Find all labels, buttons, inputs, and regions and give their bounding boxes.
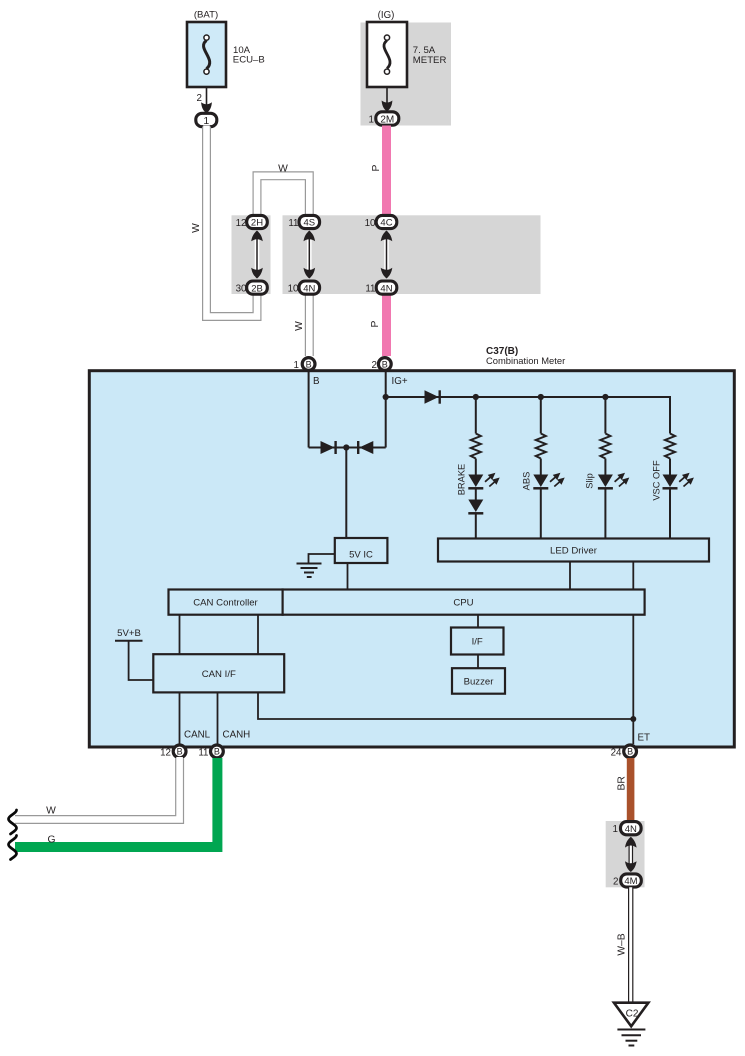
arrow into connector 2M xyxy=(382,101,393,112)
wire R1 to LED xyxy=(475,459,477,475)
value label 10A ECU-B xyxy=(233,45,265,66)
svg-text:11: 11 xyxy=(288,218,298,229)
svg-text:IG+: IG+ xyxy=(392,376,408,387)
diode D1 (from B) xyxy=(321,441,336,454)
connector 1 xyxy=(196,113,217,127)
fuse METER body xyxy=(367,22,407,87)
pin 11 label xyxy=(365,284,375,295)
wire W from junction 2H to junction 4S xyxy=(257,176,309,217)
svg-text:2: 2 xyxy=(613,877,618,888)
svg-text:2M: 2M xyxy=(380,114,394,125)
ground point C2 xyxy=(614,1003,649,1027)
wire W from junction 4N to pin 1 B xyxy=(305,294,314,356)
svg-text:W: W xyxy=(46,806,56,817)
label Slip xyxy=(585,473,595,489)
svg-text:C2: C2 xyxy=(626,1009,639,1020)
node IG+ junction dot xyxy=(383,394,389,400)
svg-text:B: B xyxy=(627,747,633,757)
pin 11 label xyxy=(288,218,298,229)
LED VSC OFF xyxy=(663,470,697,489)
svg-text:4N: 4N xyxy=(380,283,392,294)
node dot branch Slip xyxy=(602,394,608,400)
wire CAN I/F to CANH pin xyxy=(217,693,219,745)
wire ET to pin 24 xyxy=(632,719,634,744)
svg-text:BRAKE: BRAKE xyxy=(457,464,467,496)
wire BR from pin 24 to junction 4N xyxy=(627,758,635,822)
node dot branch ABS xyxy=(538,394,544,400)
svg-text:ECU–B: ECU–B xyxy=(233,55,265,66)
svg-text:1: 1 xyxy=(369,115,374,126)
svg-text:12: 12 xyxy=(160,748,171,759)
junction arrows 4C-4N xyxy=(381,231,393,279)
resistor R3 xyxy=(600,434,610,459)
wire W from connector 1 to junction 2B xyxy=(207,126,258,317)
svg-text:Buzzer: Buzzer xyxy=(464,676,495,687)
svg-text:2B: 2B xyxy=(251,283,263,294)
svg-text:1: 1 xyxy=(613,824,618,835)
wire CPU to I/F xyxy=(477,615,479,628)
wire CAN I/F to ET bus xyxy=(258,693,633,720)
LED ABS xyxy=(533,470,567,489)
wire 5V IC to CPU xyxy=(347,563,349,590)
pin 1 B (top) xyxy=(294,358,315,371)
svg-text:CAN I/F: CAN I/F xyxy=(202,669,236,680)
wire R3 to LED xyxy=(604,459,606,475)
svg-text:B: B xyxy=(177,747,183,757)
wire G from pin 11 to harness xyxy=(15,758,217,847)
connector 4N right xyxy=(376,281,397,294)
svg-text:B: B xyxy=(214,747,220,757)
svg-text:ET: ET xyxy=(638,733,651,744)
harness squiggle (G) xyxy=(9,836,17,860)
wire IG+ bus xyxy=(386,397,670,434)
wire B to diode pair xyxy=(309,447,386,449)
label ABS xyxy=(522,472,532,491)
diode D2 (from IG+) xyxy=(358,441,373,454)
pin 2 label xyxy=(197,93,202,104)
wire label P (upper) xyxy=(371,164,382,171)
svg-text:(BAT): (BAT) xyxy=(194,10,218,21)
connector 4C xyxy=(376,215,397,228)
pin 2 label xyxy=(613,877,618,888)
svg-text:CANL: CANL xyxy=(184,730,211,741)
wire ABS to LED driver xyxy=(540,488,542,538)
svg-text:CPU: CPU xyxy=(453,598,473,609)
wire R4 to LED xyxy=(669,459,671,475)
junction arrows 2H-2B xyxy=(251,231,263,279)
svg-text:24: 24 xyxy=(611,748,622,759)
pin 2 B (top) xyxy=(372,358,392,371)
wire CAN controller to CAN I/F right xyxy=(257,615,259,655)
svg-text:BR: BR xyxy=(617,776,628,790)
CAN I/F block xyxy=(153,654,284,692)
ground bars xyxy=(617,1030,645,1046)
wire P from connector 2M to junction 4C xyxy=(382,126,391,217)
wire IG+ vertical xyxy=(385,371,387,448)
node CANL label xyxy=(184,730,211,741)
wire LED driver to CPU xyxy=(569,562,571,591)
svg-text:P: P xyxy=(371,164,382,171)
wire Slip to LED driver xyxy=(604,488,606,538)
node ET label xyxy=(638,733,651,744)
wire label W (bottom) xyxy=(46,806,56,817)
fuse METER label (IG) xyxy=(378,10,395,21)
pin 1 label xyxy=(369,115,374,126)
connector 4M xyxy=(621,874,642,887)
wire label W-B xyxy=(617,933,628,955)
buzzer block xyxy=(452,668,505,694)
svg-text:B: B xyxy=(382,359,388,369)
wire to 5V IC xyxy=(345,448,347,539)
value label 7.5A METER xyxy=(413,45,447,66)
svg-text:I/F: I/F xyxy=(472,636,483,647)
svg-text:5V+B: 5V+B xyxy=(117,628,141,639)
svg-text:12: 12 xyxy=(236,218,247,229)
connector 4N (bottom) xyxy=(621,822,642,835)
svg-text:CANH: CANH xyxy=(223,730,251,741)
node dot branch BRAKE xyxy=(473,394,479,400)
pin 12 label xyxy=(236,218,247,229)
combination meter box C37(B) xyxy=(89,371,734,747)
connector 2B xyxy=(247,281,268,294)
pin 30 label xyxy=(236,284,247,295)
label C37(B) Combination Meter xyxy=(486,346,565,366)
wire label G (bottom) xyxy=(47,835,55,846)
svg-text:CAN Controller: CAN Controller xyxy=(193,598,258,609)
wire P from junction 4N to pin 2 B xyxy=(382,294,391,356)
wire label W (left vertical) xyxy=(191,223,202,233)
pin 10 label xyxy=(365,218,376,229)
resistor R4 xyxy=(665,434,675,459)
svg-text:B: B xyxy=(306,359,312,369)
connector 4N left xyxy=(299,281,320,294)
svg-text:Slip: Slip xyxy=(585,473,595,489)
I/F block xyxy=(451,628,504,655)
IG gray service box xyxy=(361,23,452,126)
svg-text:METER: METER xyxy=(413,55,447,66)
svg-text:4N: 4N xyxy=(303,283,315,294)
wire I/F to buzzer xyxy=(477,655,479,669)
node ET junction dot xyxy=(630,716,636,722)
wire VSC OFF to LED driver xyxy=(669,488,671,538)
svg-text:5V IC: 5V IC xyxy=(349,550,373,561)
svg-text:4C: 4C xyxy=(380,218,392,229)
ground (5V IC) xyxy=(297,554,335,577)
pin 10 label xyxy=(288,284,299,295)
svg-text:(IG): (IG) xyxy=(378,10,395,21)
svg-text:G: G xyxy=(47,835,55,846)
label VSC OFF xyxy=(652,460,662,501)
fuse ECU-B body xyxy=(187,22,226,87)
CAN Controller block xyxy=(169,590,283,615)
LED Slip xyxy=(598,470,632,489)
arrow into connector 1 xyxy=(201,102,212,113)
svg-text:2: 2 xyxy=(372,360,377,371)
pin 11 B (bottom) xyxy=(198,745,223,759)
wire W-B from 4M to ground xyxy=(628,887,633,1002)
svg-text:10: 10 xyxy=(288,284,299,295)
wire CAN controller to CAN I/F left xyxy=(179,615,181,655)
connector 2M xyxy=(376,112,399,126)
LED BRAKE lower xyxy=(468,500,483,514)
wire label W (top loop) xyxy=(278,163,288,174)
fuse ECU-B label (BAT) xyxy=(194,10,218,21)
wire LED driver to ET node xyxy=(632,562,634,720)
diode D5 (IG+ feed) xyxy=(425,390,440,403)
svg-text:Combination Meter: Combination Meter xyxy=(486,355,565,366)
junction arrows 4S-4N xyxy=(304,231,316,279)
wire CAN I/F to CANL pin xyxy=(179,693,181,745)
junction block bottom gray box xyxy=(606,821,645,887)
svg-text:4N: 4N xyxy=(625,824,637,835)
wire B vertical xyxy=(308,371,310,448)
label BRAKE xyxy=(457,464,467,496)
wire fuse to connector 1 xyxy=(206,87,208,113)
harness squiggle (W) xyxy=(9,810,17,834)
wire fuse to connector 2M xyxy=(386,87,388,111)
svg-text:VSC OFF: VSC OFF xyxy=(652,460,662,501)
svg-text:4M: 4M xyxy=(624,876,637,887)
node 5V+B xyxy=(115,628,153,680)
wire label W (above pin 1) xyxy=(294,321,305,331)
resistor R1 xyxy=(471,434,481,459)
LED driver block xyxy=(438,539,709,562)
connector 4S xyxy=(299,215,320,228)
wire W from pin 12 to harness xyxy=(14,757,180,820)
wire branch BRAKE xyxy=(475,397,477,434)
svg-text:LED Driver: LED Driver xyxy=(550,546,598,557)
node 5V junction dot xyxy=(343,444,349,450)
svg-text:11: 11 xyxy=(198,748,208,759)
node IG+ label xyxy=(392,376,408,387)
CPU block xyxy=(283,590,645,615)
svg-text:W: W xyxy=(278,163,288,174)
svg-text:1: 1 xyxy=(203,115,209,127)
svg-text:ABS: ABS xyxy=(522,472,532,491)
svg-text:W–B: W–B xyxy=(617,933,628,955)
wire BRAKE to LED driver xyxy=(475,513,477,538)
pin 1 label xyxy=(613,824,618,835)
node B label xyxy=(313,376,320,387)
wire between BRAKE LEDs xyxy=(475,488,477,499)
svg-text:W: W xyxy=(294,321,305,331)
junction block J1 gray box xyxy=(232,215,271,294)
pin 24 B (bottom) xyxy=(611,745,637,759)
wire R2 to LED xyxy=(540,459,542,475)
svg-text:11: 11 xyxy=(365,284,375,295)
wire label BR xyxy=(617,776,628,790)
resistor R2 xyxy=(536,434,546,459)
LED BRAKE upper xyxy=(468,470,502,489)
svg-text:4S: 4S xyxy=(303,218,315,229)
svg-text:1: 1 xyxy=(294,360,299,371)
svg-text:W: W xyxy=(191,223,202,233)
svg-text:P: P xyxy=(370,320,381,327)
wire branch ABS xyxy=(540,397,542,434)
svg-text:2H: 2H xyxy=(251,218,263,229)
connector 2H xyxy=(247,215,268,228)
junction block J/B gray box xyxy=(283,215,541,294)
pin 12 B (bottom) xyxy=(160,745,186,759)
node CANH label xyxy=(223,730,251,741)
wire label P (lower) xyxy=(370,320,381,327)
wire branch Slip xyxy=(604,397,606,434)
5V IC block xyxy=(335,538,388,563)
svg-text:B: B xyxy=(313,376,320,387)
svg-text:10: 10 xyxy=(365,218,376,229)
junction arrows 4N-4M xyxy=(625,837,637,872)
